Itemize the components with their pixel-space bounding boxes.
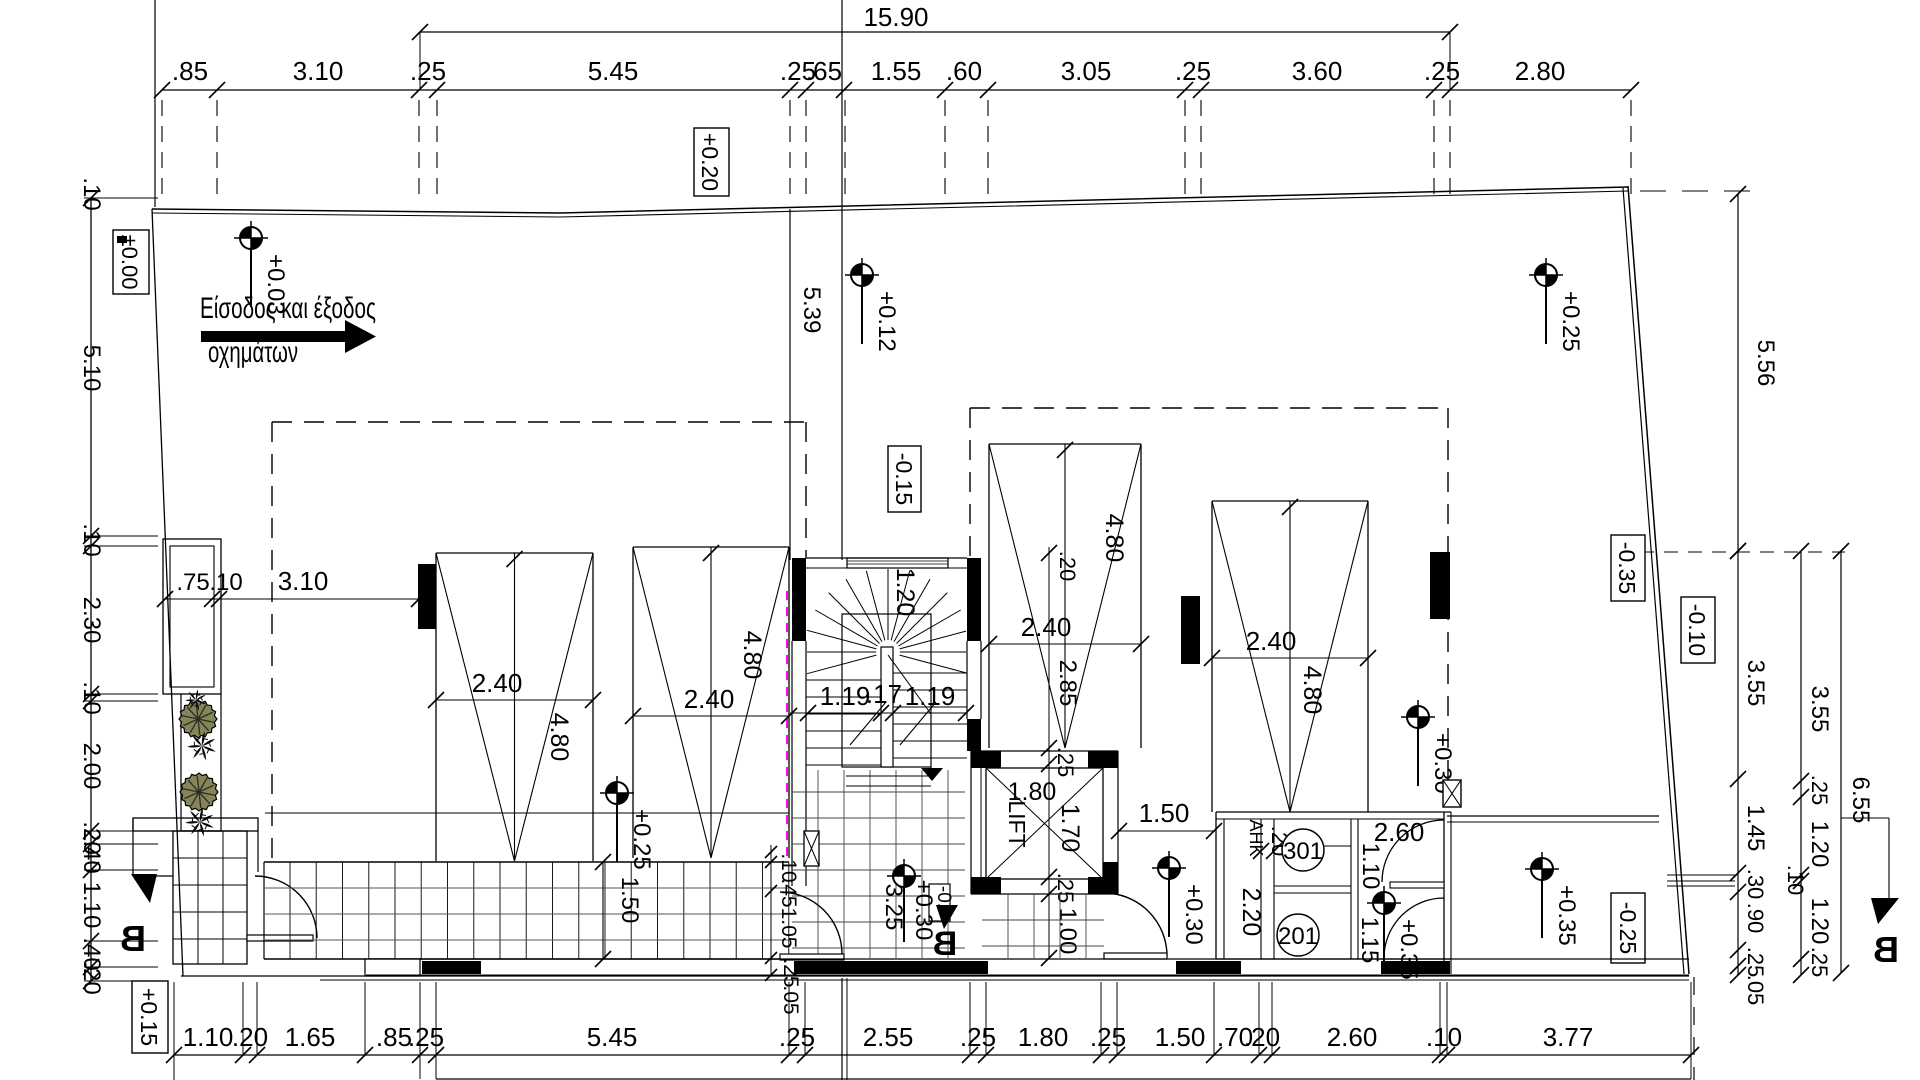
svg-text:2.80: 2.80 xyxy=(1515,56,1566,86)
svg-text:4.80: 4.80 xyxy=(1100,514,1128,563)
dimension 5.56 xyxy=(1640,186,1779,559)
svg-text:3.10: 3.10 xyxy=(293,56,344,86)
svg-text:5.56: 5.56 xyxy=(1752,340,1779,387)
svg-text:.20: .20 xyxy=(232,1022,268,1052)
svg-text:6.55: 6.55 xyxy=(1847,777,1874,824)
vehicle arrow xyxy=(201,320,376,353)
svg-text:1.20: 1.20 xyxy=(1806,821,1833,868)
crossed box window xyxy=(1443,780,1461,807)
bath door upper xyxy=(1382,820,1444,888)
svg-text:2.85: 2.85 xyxy=(1054,660,1081,707)
section B marker left xyxy=(120,874,157,959)
level marker +0.35 room xyxy=(1525,852,1580,946)
room tag 301 xyxy=(1282,829,1324,871)
svg-text:1.65: 1.65 xyxy=(285,1022,336,1052)
svg-text:-0.10: -0.10 xyxy=(1684,604,1710,656)
svg-text:LIFT: LIFT xyxy=(1004,800,1030,847)
walkway tile grid xyxy=(264,862,789,959)
svg-text:4.80: 4.80 xyxy=(1298,666,1326,715)
svg-text:+0.25: +0.25 xyxy=(1557,291,1584,352)
level marker +0.25 center xyxy=(600,776,655,870)
svg-text:1.70: 1.70 xyxy=(1056,804,1084,853)
svg-text:1.00: 1.00 xyxy=(1054,908,1081,955)
right room walls xyxy=(1447,816,1689,959)
stair newel strip xyxy=(881,647,893,767)
stair treads xyxy=(806,673,967,765)
svg-text:2.40: 2.40 xyxy=(472,668,523,698)
parking space P1 xyxy=(428,551,601,861)
dashed outline right part xyxy=(970,408,1448,781)
svg-text:.25: .25 xyxy=(1743,947,1768,978)
parking space P3 xyxy=(981,442,1149,748)
level marker +0.30 stair cluster xyxy=(880,859,954,942)
svg-text:B: B xyxy=(120,918,146,959)
svg-text:.25: .25 xyxy=(1090,1022,1126,1052)
stair direction line xyxy=(888,655,943,781)
dim .75/.10/3.10 xyxy=(157,566,427,607)
svg-text:3.10: 3.10 xyxy=(278,566,329,596)
stair hall walls xyxy=(792,558,981,886)
svg-text:2.40: 2.40 xyxy=(1021,612,1072,642)
svg-text:.20: .20 xyxy=(1055,551,1080,582)
tree 2 xyxy=(180,773,218,811)
svg-text:.25: .25 xyxy=(1424,56,1460,86)
svg-text:.10: .10 xyxy=(1426,1022,1462,1052)
svg-text:3.60: 3.60 xyxy=(1292,56,1343,86)
top dimension chain xyxy=(154,56,1639,203)
svg-text:1.50: 1.50 xyxy=(1139,798,1190,828)
planter box xyxy=(163,539,221,694)
room tag 201 xyxy=(1277,914,1319,956)
svg-text:.40: .40 xyxy=(78,840,105,873)
svg-text:B: B xyxy=(1873,929,1899,970)
right dimension chain A xyxy=(1730,543,1769,1005)
porch outline left xyxy=(133,818,258,876)
svg-text:3.05: 3.05 xyxy=(1061,56,1112,86)
svg-text:5.39: 5.39 xyxy=(798,287,825,334)
svg-text:301: 301 xyxy=(1283,838,1323,865)
svg-text:+0.20: +0.20 xyxy=(697,133,723,191)
svg-text:2.40: 2.40 xyxy=(684,684,735,714)
level box -0.35 xyxy=(1611,535,1645,601)
svg-text:4.80: 4.80 xyxy=(545,713,573,762)
porch wall band xyxy=(133,818,258,831)
lift shaft xyxy=(971,751,1118,894)
level marker +0.30 parking xyxy=(1401,700,1456,794)
tree 1 xyxy=(179,700,217,738)
section B arrow mid xyxy=(933,905,958,963)
svg-text:.25: .25 xyxy=(410,56,446,86)
svg-text:1.50: 1.50 xyxy=(616,877,643,924)
svg-text:.60: .60 xyxy=(946,56,982,86)
right dimension chain B xyxy=(1783,543,1833,983)
svg-text:1.50: 1.50 xyxy=(1155,1022,1206,1052)
wall stub left of P1 xyxy=(418,564,436,629)
svg-text:.85: .85 xyxy=(172,56,208,86)
step at walkway xyxy=(365,959,420,976)
svg-text:5.10: 5.10 xyxy=(78,345,105,392)
svg-text:.05: .05 xyxy=(779,985,802,1014)
svg-text:201: 201 xyxy=(1278,923,1318,950)
svg-text:-0.15: -0.15 xyxy=(891,453,917,505)
parking space P4 xyxy=(1204,499,1376,812)
level marker +0.12 xyxy=(845,258,900,352)
svg-text:.25: .25 xyxy=(1807,775,1832,806)
svg-text:.25: .25 xyxy=(779,1022,815,1052)
svg-text:1.10: 1.10 xyxy=(78,882,105,929)
svg-text:.20: .20 xyxy=(1244,1022,1280,1052)
dashed outline left part xyxy=(272,422,806,860)
walkway end dims xyxy=(765,845,802,1015)
svg-text:2.20: 2.20 xyxy=(1237,888,1265,937)
svg-text:-0.35: -0.35 xyxy=(1614,542,1640,594)
stair hall floor grid xyxy=(792,770,965,958)
corridor dim 1.50 xyxy=(1111,798,1222,839)
svg-text:.10: .10 xyxy=(1783,865,1808,896)
svg-text:.10: .10 xyxy=(209,569,242,596)
svg-text:2.40: 2.40 xyxy=(1246,626,1297,656)
level marker +0.30 right of lift xyxy=(1152,851,1207,945)
section line x=842 upper xyxy=(841,0,843,560)
planter strip xyxy=(181,694,221,831)
site boundary north (double line) xyxy=(152,187,1628,217)
level box +0.20 xyxy=(694,128,729,196)
svg-text:1.45: 1.45 xyxy=(1742,805,1769,852)
svg-text:3.25: 3.25 xyxy=(880,884,907,931)
bathroom block walls xyxy=(1216,812,1451,974)
svg-text:1.20: 1.20 xyxy=(1806,898,1833,945)
dim 2.60 xyxy=(1374,817,1425,847)
svg-text:1.10: 1.10 xyxy=(1357,843,1384,890)
svg-text:.65: .65 xyxy=(806,56,842,86)
svg-text:.85: .85 xyxy=(376,1022,412,1052)
svg-text:2.30: 2.30 xyxy=(78,597,105,644)
extension line x=790 with 5.39 xyxy=(790,209,825,560)
svg-text:.25: .25 xyxy=(1053,747,1078,778)
porch tile grid xyxy=(173,831,247,964)
svg-text:.45: .45 xyxy=(777,878,800,907)
svg-text:.20: .20 xyxy=(78,961,105,994)
site boundary east (double line, sloped) xyxy=(1623,186,1689,974)
bath door lower xyxy=(1384,898,1444,958)
svg-text:1.05: 1.05 xyxy=(777,908,800,949)
wall stub left of P4 xyxy=(1181,596,1200,664)
right dimension chain C 6.55 xyxy=(1640,543,1874,981)
svg-text:1.20: 1.20 xyxy=(891,568,919,617)
porch door xyxy=(247,876,317,941)
svg-text:+0.30: +0.30 xyxy=(1180,884,1207,945)
svg-text:.25: .25 xyxy=(1053,873,1078,904)
site boundary west (sloped) xyxy=(152,209,183,976)
corridor south door xyxy=(1104,893,1167,959)
svg-text:.25: .25 xyxy=(960,1022,996,1052)
svg-text:±0.00: ±0.00 xyxy=(117,235,142,290)
svg-text:.25: .25 xyxy=(779,958,802,987)
svg-text:5.45: 5.45 xyxy=(587,1022,638,1052)
walkway curb line xyxy=(265,812,789,814)
stair top landing strip xyxy=(847,558,948,568)
svg-text:.10: .10 xyxy=(78,177,105,210)
walkway width dim 1.50 xyxy=(595,854,643,967)
wall stub right xyxy=(1430,552,1450,619)
left dimension chain xyxy=(78,177,158,994)
svg-text:.25: .25 xyxy=(1807,947,1832,978)
svg-text:1.80: 1.80 xyxy=(1018,1022,1069,1052)
fern 2 xyxy=(185,689,206,710)
svg-text:οχημάτων: οχημάτων xyxy=(208,336,298,369)
section B marker right xyxy=(1841,818,1899,970)
south wall with black segments xyxy=(366,959,1689,975)
svg-text:3.77: 3.77 xyxy=(1543,1022,1594,1052)
parking space P2 xyxy=(625,545,797,858)
dim .20 wall xyxy=(1253,826,1292,859)
corridor floor grid xyxy=(982,894,1104,958)
fern 1 xyxy=(187,731,216,760)
hall west door xyxy=(780,892,844,960)
column with X xyxy=(804,831,819,866)
svg-text:.25: .25 xyxy=(408,1022,444,1052)
svg-text:1.19: 1.19 xyxy=(905,681,956,711)
svg-text:+0.15: +0.15 xyxy=(136,988,162,1046)
svg-text:1.55: 1.55 xyxy=(871,56,922,86)
level box +0.15 xyxy=(132,981,168,1053)
svg-text:2.60: 2.60 xyxy=(1327,1022,1378,1052)
svg-text:AHK: AHK xyxy=(1246,819,1266,856)
svg-text:5.45: 5.45 xyxy=(588,56,639,86)
level box -0.10 xyxy=(1681,597,1715,663)
level marker +0.35 bath xyxy=(1367,886,1422,980)
stair dims 1.19/.17/1.19 xyxy=(790,679,974,745)
svg-text:.10: .10 xyxy=(78,681,105,714)
svg-text:.25: .25 xyxy=(1175,56,1211,86)
window lines east xyxy=(1667,875,1735,886)
svg-text:+0.12: +0.12 xyxy=(873,291,900,352)
magenta dashed line xyxy=(786,591,788,858)
svg-text:4.80: 4.80 xyxy=(738,631,766,680)
level box +0.00 xyxy=(113,230,149,294)
svg-text:B: B xyxy=(933,925,958,963)
svg-text:3.55: 3.55 xyxy=(1742,660,1769,707)
level marker +0.25 top right xyxy=(1529,258,1584,352)
stair lower treads xyxy=(846,776,931,786)
site boundary south xyxy=(181,976,1689,980)
svg-text:+0.25: +0.25 xyxy=(628,809,655,870)
bottom dimension chain xyxy=(166,977,1699,1080)
section line x=842 lower xyxy=(842,978,847,1080)
level box -0.15 xyxy=(888,446,921,512)
svg-text:1.15: 1.15 xyxy=(1356,917,1383,964)
svg-text:.90: .90 xyxy=(1743,903,1768,934)
level box -0.25 xyxy=(1611,893,1645,963)
svg-text:1.10: 1.10 xyxy=(183,1022,234,1052)
vertical chain through lift xyxy=(1041,545,1081,966)
svg-text:15.90: 15.90 xyxy=(863,2,928,32)
svg-text:3.55: 3.55 xyxy=(1806,686,1833,733)
svg-text:.10: .10 xyxy=(78,523,105,556)
svg-text:2.55: 2.55 xyxy=(863,1022,914,1052)
svg-text:.30: .30 xyxy=(1743,869,1768,900)
fern 3 xyxy=(185,807,214,836)
svg-text:1.19: 1.19 xyxy=(820,681,871,711)
svg-text:.05: .05 xyxy=(1743,975,1768,1006)
level marker +0.03 xyxy=(234,221,289,315)
reference line top-left x=155 xyxy=(154,0,156,207)
dimension 15.90 overall xyxy=(412,2,1458,90)
stair winder fan xyxy=(807,569,966,767)
svg-text:-0.25: -0.25 xyxy=(1615,902,1641,954)
svg-text:+0.35: +0.35 xyxy=(1553,885,1580,946)
svg-text:+0.03: +0.03 xyxy=(262,254,289,315)
svg-text:.75: .75 xyxy=(176,569,209,596)
svg-text:2.00: 2.00 xyxy=(78,743,105,790)
